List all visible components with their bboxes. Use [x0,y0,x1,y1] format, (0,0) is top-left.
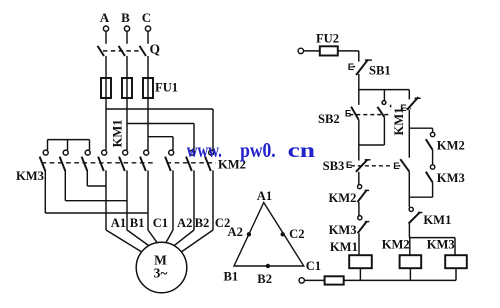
svg-text:KM3: KM3 [427,237,455,251]
svg-text:pw0.: pw0. [240,138,276,162]
svg-text:3~: 3~ [154,265,168,280]
svg-text:SB1: SB1 [369,64,391,78]
svg-text:KM1: KM1 [423,213,451,227]
svg-text:KM1: KM1 [111,119,125,147]
svg-text:cn: cn [288,138,316,162]
svg-text:C1: C1 [306,259,321,273]
svg-text:SB2: SB2 [318,112,340,126]
svg-text:www.: www. [187,138,222,162]
svg-text:E: E [400,103,406,114]
svg-text:B1: B1 [130,216,145,230]
svg-text:C: C [142,10,151,25]
svg-text:A: A [100,10,110,25]
svg-text:A2: A2 [177,216,192,230]
svg-text:Q: Q [150,42,161,57]
svg-text:B: B [121,10,130,25]
svg-text:SB3: SB3 [323,159,345,173]
svg-text:C2: C2 [289,227,304,241]
svg-text:KM2: KM2 [329,191,357,205]
svg-text:B1: B1 [224,270,239,284]
svg-text:A1: A1 [111,216,126,230]
svg-text:KM3: KM3 [329,223,357,237]
svg-text:KM3: KM3 [437,171,465,185]
svg-text:A1: A1 [257,189,272,203]
svg-text:FU1: FU1 [155,81,178,95]
svg-text:KM2: KM2 [437,138,465,152]
svg-text:B2: B2 [257,272,272,286]
svg-text:C1: C1 [153,216,168,230]
svg-text:B2: B2 [195,216,210,230]
svg-text:KM1: KM1 [330,240,358,254]
svg-text:KM2: KM2 [382,237,410,251]
svg-text:FU2: FU2 [316,32,339,46]
svg-text:KM3: KM3 [16,169,44,183]
svg-text:A2: A2 [228,225,243,239]
